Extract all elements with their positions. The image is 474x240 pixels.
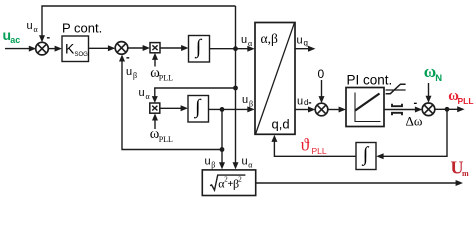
label u_q (297, 34, 308, 47)
block PI controller U2 (346, 88, 384, 127)
svg-text:ω: ω (424, 62, 436, 81)
svg-text:u: u (242, 155, 248, 167)
wire: I2 output u_beta to transform (209, 106, 255, 112)
label u_d (297, 96, 308, 108)
svg-text:α: α (248, 39, 253, 48)
wire: u_alpha vertical rail (233, 6, 239, 169)
svg-text:β: β (133, 71, 137, 80)
label u_alpha (top left) (27, 20, 39, 34)
multiplier M2 (150, 103, 160, 113)
svg-text:u: u (126, 66, 132, 78)
svg-text:Δω: Δω (406, 114, 423, 129)
integrator I3 (356, 143, 376, 170)
wire: S3 to PI block (328, 107, 346, 113)
svg-text:α,β: α,β (261, 31, 278, 46)
svg-text:q,d: q,d (272, 117, 290, 132)
svg-text:q: q (304, 38, 308, 47)
wire: omega_N into S4 (426, 83, 432, 103)
label omega_PLL (output, red) (448, 88, 473, 106)
label u_alpha (row A) (241, 34, 253, 48)
label U_m (red serif) (451, 158, 470, 178)
svg-text:PLL: PLL (458, 96, 474, 106)
label u_beta (above magnitude block) (205, 155, 216, 169)
wire: u_beta vertical rail to magnitude block (219, 109, 225, 169)
svg-text:2: 2 (238, 176, 242, 184)
svg-text:PLL: PLL (159, 74, 173, 83)
wire: u_alpha feedback (top) (39, 6, 236, 42)
svg-text:u: u (241, 34, 247, 46)
svg-text:α: α (146, 92, 151, 101)
svg-text:-: - (308, 98, 311, 109)
wire: u_d output to S3 (295, 109, 311, 111)
svg-text:P cont.: P cont. (62, 20, 102, 35)
wire: PI to S4 (384, 107, 422, 113)
svg-text:PI cont.: PI cont. (347, 72, 393, 87)
svg-text:N: N (435, 73, 442, 84)
label u_beta (row B) (242, 94, 253, 108)
multiplier M1 (150, 43, 160, 53)
limiter brackets on wire (392, 104, 402, 116)
label u_alpha (above magnitude block) (242, 155, 254, 169)
svg-text:ac: ac (10, 35, 20, 45)
summing junction S3 (315, 103, 328, 116)
svg-text:u: u (242, 94, 248, 106)
wire: u_alpha branch to M2 (152, 88, 236, 103)
svg-text:-: - (414, 97, 418, 109)
wire: omega_PLL output (435, 106, 465, 112)
svg-text:m: m (462, 169, 469, 178)
saturation symbol (PI output limit) (386, 84, 406, 94)
svg-text:ϑ: ϑ (301, 134, 310, 154)
summing junction S2 (115, 42, 128, 55)
integrator I1 (189, 36, 210, 63)
summing junction S4 (422, 103, 435, 116)
wire: S1 to K_SOGI (48, 46, 62, 52)
wire: theta_PLL feedback to transform (271, 135, 356, 157)
svg-text:SOGI: SOGI (75, 52, 90, 58)
wire: S2 to M1 (128, 45, 150, 51)
svg-text:u: u (139, 87, 145, 99)
summing junction S1 (36, 42, 49, 55)
wire: u_q output (295, 46, 315, 52)
svg-text:β: β (211, 160, 215, 169)
wire: U_m output (256, 180, 463, 186)
svg-text:0: 0 (318, 67, 325, 81)
svg-text:u: u (297, 96, 303, 108)
label omega_PLL (M1 input) (150, 65, 173, 83)
wire: M2 to I2 (160, 105, 188, 111)
svg-text:K: K (65, 41, 75, 57)
wire: M1 to I1 (160, 45, 189, 51)
wire: u_ac input (5, 46, 36, 52)
svg-text:u: u (205, 155, 211, 167)
svg-text:PLL: PLL (312, 146, 327, 156)
svg-text:u: u (27, 20, 33, 32)
wire: omega_PLL into M2 (152, 113, 158, 129)
svg-text:α: α (248, 160, 253, 169)
svg-text:u: u (297, 34, 303, 46)
wire: K_SOGI to S2 (89, 45, 116, 51)
label omega_N (424, 62, 443, 84)
integrator I2 (188, 96, 209, 123)
label u_alpha (at M2 branch) (139, 87, 151, 101)
label theta_PLL (red) (301, 134, 327, 155)
svg-text:-: - (47, 32, 51, 44)
wire: omega_PLL into M1 (152, 53, 158, 67)
wire: I1 output u_alpha to transform (210, 46, 255, 52)
svg-text:PLL: PLL (159, 135, 173, 144)
label u_ac (3, 27, 21, 45)
wire: u_beta feedback to S2 (119, 54, 222, 149)
svg-text:-: - (126, 52, 130, 64)
svg-text:α: α (34, 25, 39, 34)
label u_beta (below S2) (126, 66, 137, 80)
block alpha-beta to q-d transform (255, 23, 295, 135)
label omega_PLL (M2 input) (150, 126, 173, 144)
wire: omega feedback to integrator I3 (376, 109, 447, 159)
svg-text:β: β (249, 99, 253, 108)
block magnitude sqrt(alpha^2+beta^2) (202, 170, 255, 196)
wire: zero reference into S3 (319, 80, 325, 103)
block K_SOGI (62, 36, 90, 62)
